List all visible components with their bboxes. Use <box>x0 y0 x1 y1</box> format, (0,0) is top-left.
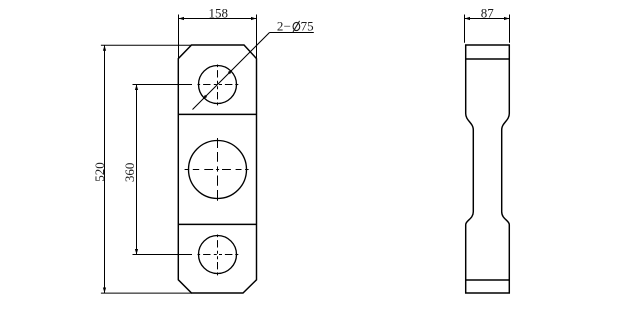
svg-text:2: 2 <box>277 18 284 33</box>
dimension 360 arrow top <box>135 85 138 91</box>
dimension 360 line <box>136 85 138 255</box>
dimension 158 arrow left <box>179 17 185 20</box>
svg-text:87: 87 <box>481 6 495 21</box>
svg-text:520: 520 <box>92 162 107 182</box>
dimension 87 extension line left <box>464 15 466 43</box>
svg-text:360: 360 <box>122 163 137 183</box>
centerline top hole horizontal <box>198 84 239 86</box>
dimension 158 extension line right <box>256 15 258 59</box>
side view outline <box>466 45 510 293</box>
side view top chamfer line <box>466 58 510 60</box>
dimension 158 line <box>179 18 257 20</box>
svg-text:75: 75 <box>301 18 314 33</box>
leader arrow upper-right on circle <box>228 70 233 75</box>
svg-text:158: 158 <box>208 5 228 20</box>
dimension 87 extension line right <box>509 15 511 43</box>
side view bottom chamfer line <box>466 279 510 281</box>
dimension 520 arrow top <box>103 45 106 51</box>
divider line lower <box>178 223 256 225</box>
dimension 158 arrow right <box>251 17 257 20</box>
dimension 87 arrow right <box>504 17 510 20</box>
centerline bottom hole vertical <box>217 235 219 276</box>
hole top (Φ75) <box>199 66 237 104</box>
leader 2-Φ75 horizontal shoulder <box>270 32 314 34</box>
svg-text:−: − <box>284 18 291 33</box>
dimension 360 extension line bottom <box>133 254 193 256</box>
dimension 360 extension line top <box>133 84 193 86</box>
dimension 520 extension line bottom <box>101 292 192 294</box>
dimension 520 arrow bottom <box>103 288 106 294</box>
dimension 520 extension line top <box>101 44 192 46</box>
centerline top hole vertical <box>217 65 219 106</box>
leader 2-Φ75 diagonal line <box>193 33 270 110</box>
dimension 158 extension line left <box>178 15 180 59</box>
hole middle <box>189 141 247 199</box>
dimension 87 arrow left <box>465 17 471 20</box>
label 2-Φ75 text <box>277 18 314 33</box>
dimension 360 arrow bottom <box>135 249 138 255</box>
front view plate outline <box>178 45 256 293</box>
hole bottom (Φ75) <box>199 236 237 274</box>
centerline middle hole horizontal <box>185 169 249 171</box>
dimension 520 line <box>104 45 106 293</box>
centerline middle hole vertical <box>217 138 219 201</box>
divider line upper <box>178 113 256 115</box>
leader arrow lower-left on circle <box>203 95 208 100</box>
centerline bottom hole horizontal <box>198 254 239 256</box>
dimension 87 line <box>465 18 510 20</box>
